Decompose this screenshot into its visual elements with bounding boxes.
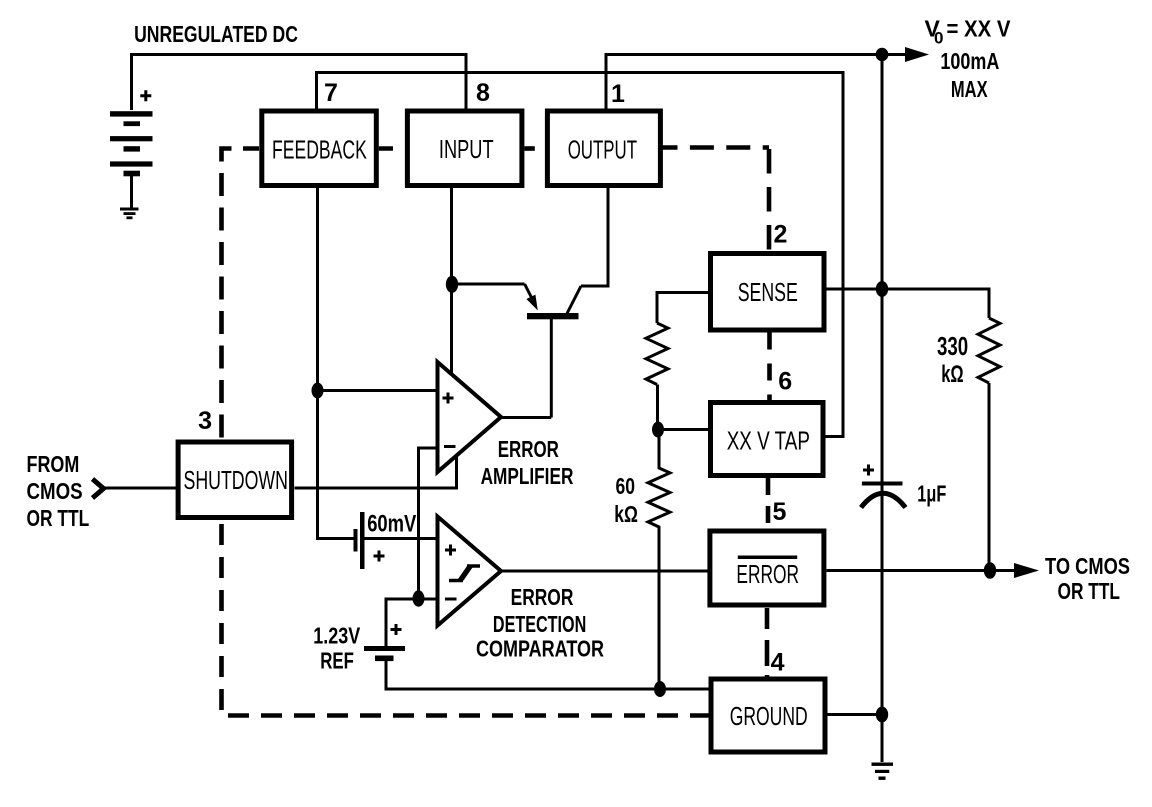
dashed wire OUTPUT to SENSE pin 2 — [663, 145, 770, 150]
transistor Q1 emitter wire — [452, 283, 525, 286]
ground (battery) — [120, 208, 139, 220]
dashed wire SHUTDOWN below to GROUND — [222, 520, 709, 716]
svg-text:MAX: MAX — [951, 76, 988, 102]
box XX V TAP pin 6 — [711, 403, 824, 476]
svg-text:kΩ: kΩ — [614, 501, 638, 527]
dashed pin 5 XX V TAP to ERROR — [766, 478, 771, 529]
wire INPUT pin 8 bottom to error amp top — [450, 185, 453, 374]
svg-text:60: 60 — [616, 473, 636, 499]
svg-text:XX V TAP: XX V TAP — [727, 428, 810, 456]
capacitor C1 1uF plus — [863, 465, 874, 476]
box SENSE pin 2 — [711, 254, 825, 331]
svg-text:1.23V: 1.23V — [313, 623, 360, 649]
transistor Q1 collector wire to OUTPUT — [581, 185, 608, 286]
battery 1.23V REF plates — [364, 646, 405, 651]
svg-text:ERROR: ERROR — [511, 584, 574, 610]
svg-text:AMPLIFIER: AMPLIFIER — [481, 463, 574, 489]
wire output rail down (right vertical) — [881, 55, 884, 763]
1.23V plus — [391, 624, 402, 635]
wire FEEDBACK pin 7 down to 60mV battery — [318, 185, 354, 539]
wire comparator output to ERROR box — [501, 570, 708, 573]
svg-text:GROUND: GROUND — [730, 703, 808, 731]
wire SHUTDOWN to error amp bottom — [295, 456, 457, 488]
input chevron arrow — [93, 479, 104, 498]
svg-text:DETECTION: DETECTION — [493, 611, 586, 637]
svg-text:CMOS: CMOS — [27, 478, 83, 504]
wire GROUND to rail — [828, 713, 883, 716]
svg-text:100mA: 100mA — [940, 48, 999, 74]
dashed wire FEEDBACK to INPUT — [379, 146, 405, 151]
dashed wire INPUT to OUTPUT — [524, 146, 545, 151]
wire SENSE right to 330k and V rail — [826, 289, 989, 318]
U2 hysteresis symbol — [449, 566, 480, 581]
wire 1.23V battery to ground rail — [386, 661, 709, 689]
wire FEEDBACK pin7 to XX V TAP (top route) — [317, 73, 844, 437]
box SHUTDOWN pin 3 — [178, 442, 292, 518]
svg-text:REF: REF — [320, 648, 354, 674]
dashed wire SHUTDOWN to FEEDBACK — [222, 149, 260, 441]
svg-text:OR TTL: OR TTL — [1058, 578, 1121, 604]
svg-text:FEEDBACK: FEEDBACK — [272, 137, 367, 165]
svg-text:SENSE: SENSE — [738, 279, 798, 307]
ground symbol (rail) — [872, 763, 894, 780]
node ground rail junction — [876, 707, 888, 723]
svg-text:FROM: FROM — [27, 451, 80, 477]
capacitor C1 top plate — [862, 482, 903, 486]
battery V+ UNREGULATED DC — [110, 111, 153, 176]
svg-text:0: 0 — [934, 29, 943, 48]
overline on ERROR — [738, 556, 797, 560]
svg-text:60mV: 60mV — [367, 511, 416, 538]
box ERROR pin 5 — [710, 531, 824, 605]
svg-text:1: 1 — [611, 80, 625, 108]
wire 60mV to comparator + — [365, 537, 438, 540]
node feedback junction — [312, 383, 324, 399]
box INPUT pin 8 — [407, 111, 522, 186]
node input/emitter junction — [446, 276, 458, 293]
60mV plus — [374, 551, 385, 562]
transistor Q1 emitter arrowhead — [526, 295, 537, 311]
U1 minus — [444, 445, 456, 448]
dashed pin 6 SENSE to XX V TAP — [767, 333, 772, 401]
svg-text:OR TTL: OR TTL — [27, 505, 90, 531]
node V0 junction — [876, 48, 889, 62]
svg-text:UNREGULATED DC: UNREGULATED DC — [134, 21, 298, 47]
svg-text:kΩ: kΩ — [941, 361, 963, 388]
box GROUND pin 4 — [711, 679, 825, 752]
svg-text:6: 6 — [778, 368, 792, 396]
svg-text:SHUTDOWN: SHUTDOWN — [184, 467, 289, 495]
battery plus sign — [140, 90, 151, 101]
U2 minus — [445, 598, 457, 601]
wire error amp minus to ref node — [419, 448, 438, 599]
box OUTPUT pin 1 — [547, 111, 660, 186]
battery 60mV plates — [354, 529, 358, 552]
svg-text:4: 4 — [771, 649, 785, 677]
svg-text:7: 7 — [324, 79, 338, 107]
arrowhead TO CMOS — [1014, 563, 1039, 578]
svg-text:ERROR: ERROR — [736, 561, 799, 589]
node ref junction — [413, 590, 425, 606]
capacitor C1 curved plate — [861, 493, 906, 507]
svg-text:2: 2 — [774, 220, 788, 248]
wire battery to ground — [130, 176, 133, 208]
transistor Q1 base bar — [527, 313, 579, 319]
node divider tap junction — [652, 422, 664, 438]
op-amp U2 error detection comparator — [438, 517, 502, 626]
wire OUTPUT pin1 to V0 arrow — [606, 55, 910, 111]
svg-text:5: 5 — [773, 498, 787, 526]
svg-text:= XX V: = XX V — [947, 16, 1012, 42]
node divider/ground junction — [654, 681, 666, 697]
svg-text:COMPARATOR: COMPARATOR — [476, 636, 604, 662]
svg-text:8: 8 — [476, 79, 490, 107]
svg-text:OUTPUT: OUTPUT — [568, 137, 637, 165]
svg-text:330: 330 — [937, 331, 968, 361]
arrowhead V0 — [905, 47, 929, 62]
U2 plus — [445, 545, 456, 556]
svg-text:INPUT: INPUT — [439, 136, 494, 164]
node sense rail junction — [876, 281, 888, 297]
wire SENSE left to divider — [657, 293, 708, 324]
op-amp U1 error amplifier — [438, 362, 502, 472]
U1 plus — [443, 393, 454, 404]
resistor R1 330k — [978, 318, 1000, 383]
dashed pin 4 ERROR to GROUND — [765, 608, 770, 677]
wire battery top to INPUT pin 8 — [132, 55, 467, 111]
svg-text:TO CMOS: TO CMOS — [1045, 553, 1130, 579]
svg-text:3: 3 — [198, 407, 212, 435]
svg-text:1μF: 1μF — [917, 481, 946, 507]
wire ref node to 1.23V battery — [386, 599, 419, 646]
box FEEDBACK pin 7 — [262, 111, 377, 186]
svg-text:ERROR: ERROR — [498, 436, 559, 462]
wire from cmos to SHUTDOWN — [101, 487, 177, 490]
node error out junction — [984, 562, 996, 579]
wire feedback to error amp + input — [318, 389, 438, 392]
resistor R2 divider upper — [646, 323, 668, 385]
wire tap junction to XX V TAP — [658, 428, 708, 431]
transistor Q1 base lead to error amp output — [501, 416, 551, 419]
wire ERROR output to arrow — [827, 569, 1017, 572]
resistor R3 60k — [648, 430, 670, 690]
